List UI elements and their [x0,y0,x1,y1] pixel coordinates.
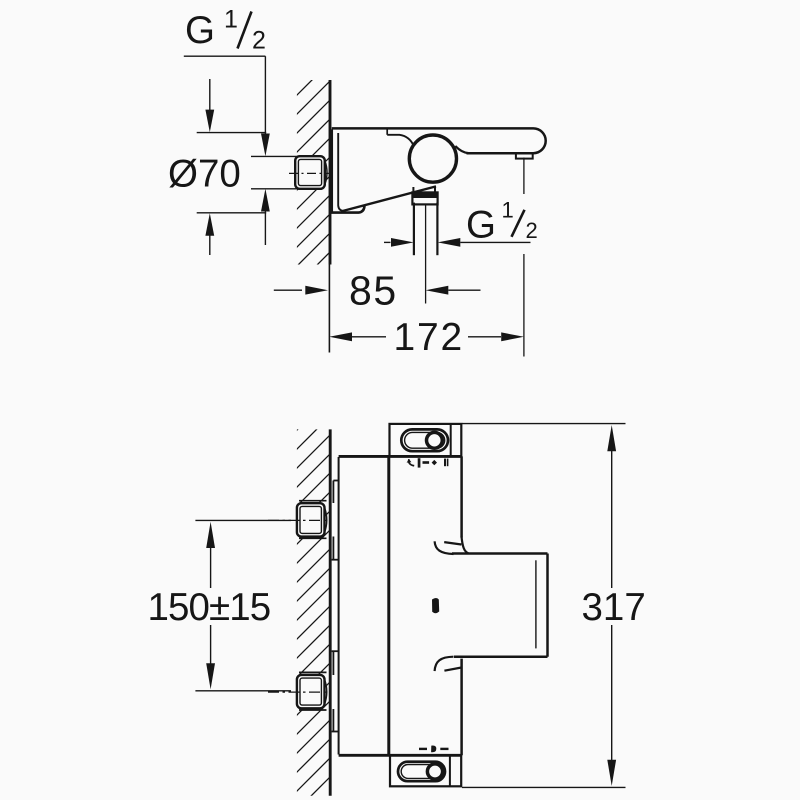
upper wall nut (bottom drawing) [297,501,327,539]
outlet pipe [414,203,438,256]
nut centerline dash-dot [289,172,329,174]
wall face line (top drawing) [328,80,332,353]
lower wall nut (bottom drawing) [297,672,327,710]
valve protrusion (front view) [452,554,548,657]
union nut on outlet pipe [412,192,437,204]
aerator tip on spout [516,153,533,158]
extension line from aerator (for 172) [523,158,525,357]
dimension G1/2 top: arrows [261,134,270,212]
mounting bracket segments behind plate [332,481,339,732]
dimension 317: line and arrows [607,425,616,786]
dimension 85: arrows [274,286,481,295]
label 85 [349,268,398,314]
top cap with shower outlet [390,424,462,457]
svg-text:85: 85 [349,268,398,314]
wall face line (bottom drawing) [329,429,332,795]
wall union nut (top drawing) [295,156,327,189]
wall hatch (front view, bottom drawing) [277,380,347,800]
dimension G1/2 top: leader [184,56,266,133]
control markings below top cap [407,458,449,467]
lever / spout bar (side view) [332,128,546,153]
svg-text:1: 1 [224,6,238,34]
label 172 [394,316,464,359]
svg-text:317: 317 [582,586,646,629]
bottom oval port [398,762,445,782]
marking above bottom cap [419,745,449,752]
svg-text:2: 2 [252,27,266,55]
svg-text:150±15: 150±15 [148,586,271,629]
top oval port [401,429,448,451]
main thermostat body (front view) [339,456,462,755]
svg-text:1: 1 [502,197,514,222]
centre blob marker on body [432,598,439,613]
label 317 [582,586,646,629]
dimension 172: line and arrows [329,332,524,341]
wall hatch (side view, top drawing) [277,45,347,324]
shower outlet connector below knob [413,187,435,193]
dimension 150±15: extension lines [195,520,291,690]
bottom cap with hose outlet [390,755,461,786]
label Ø70 [168,153,241,196]
top hook detail [435,537,469,555]
lower nut centerline [268,691,329,693]
dimension Ø70: extension lines [197,133,267,213]
mixer escutcheon cone (side view) [330,129,436,212]
svg-text:Ø70: Ø70 [168,153,241,196]
upper nut centerline [268,519,329,521]
svg-text:G: G [185,9,215,52]
svg-text:2: 2 [526,218,538,243]
svg-text:G: G [466,204,496,247]
thermostat knob circle U-top [409,135,456,182]
pipe centerline (extension for 85) [425,205,427,304]
label G 1/2 (top) [185,6,266,55]
escutcheon back plate (front view) [338,457,340,755]
svg-text:172: 172 [394,316,464,359]
bottom hook detail [435,657,462,671]
label 150±15 [148,586,271,629]
dimension Ø70: arrows [205,79,214,255]
knob fillets to body and spout [387,135,468,153]
dimension 150±15: line and arrows [206,522,215,690]
extension lines for G1/2 top (nut top/bottom) [251,156,297,188]
dimension G1/2 bottom: arrows at pipe [384,238,531,247]
label G 1/2 (bottom) [466,197,538,246]
dimension 317: extension lines [462,424,626,788]
